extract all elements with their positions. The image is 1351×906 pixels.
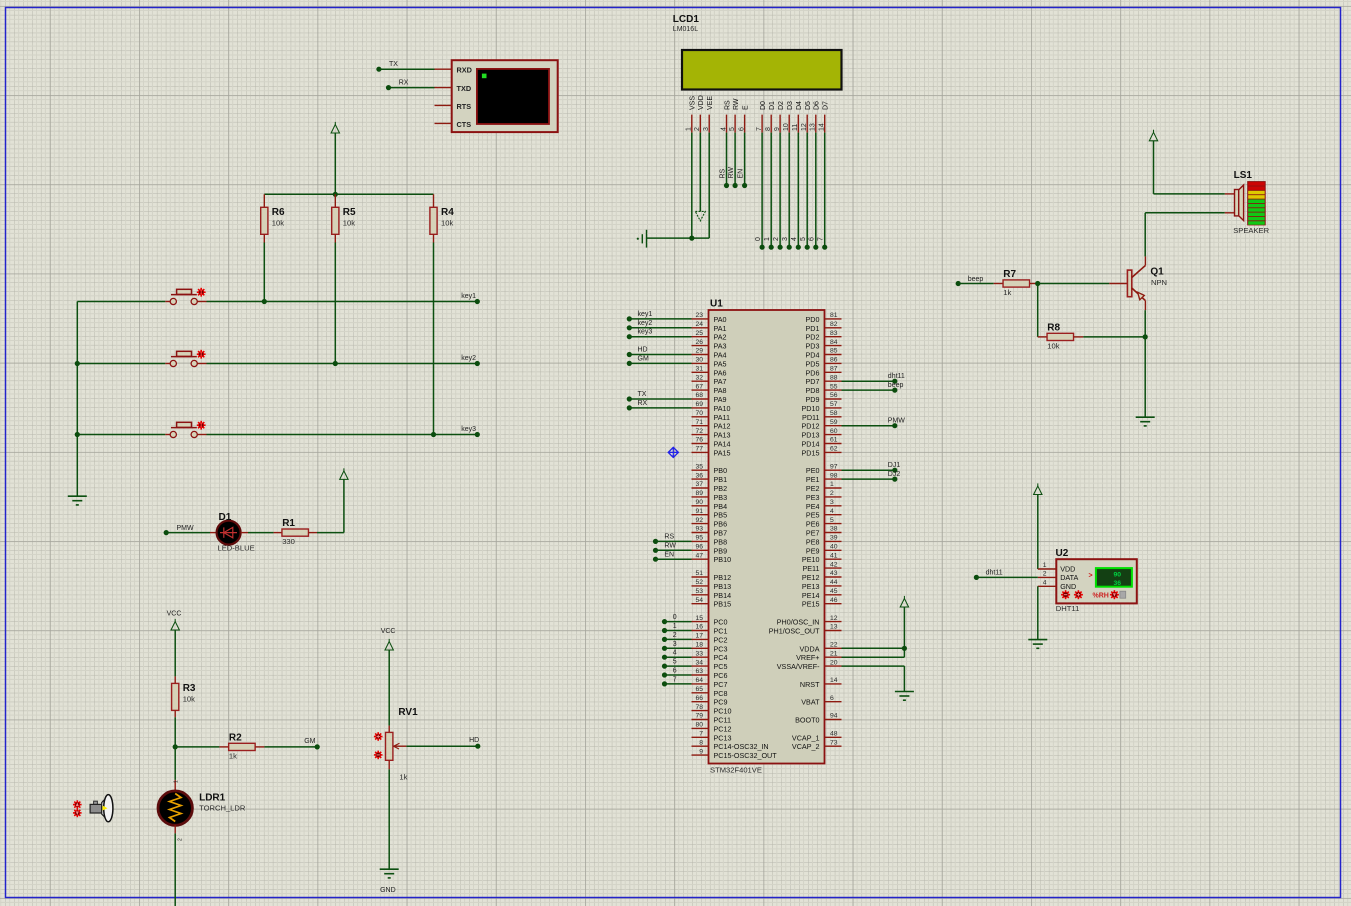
resistor R2 1k [219,732,264,760]
svg-text:PC0: PC0 [714,618,728,627]
svg-text:14: 14 [830,677,838,684]
svg-text:PE9: PE9 [806,546,820,555]
wire key3 to terminal [207,434,478,436]
svg-text:91: 91 [695,508,703,515]
U1 pin PH0/OSC_IN (12) [777,615,842,627]
svg-text:RW: RW [728,167,735,179]
torch actuator up marker [73,800,82,809]
svg-text:NRST: NRST [800,680,820,689]
svg-text:RX: RX [638,400,648,407]
svg-text:PB12: PB12 [714,573,732,582]
U1 pin PB0 (35) [692,463,728,475]
svg-text:PC7: PC7 [714,680,728,689]
svg-text:5: 5 [673,659,677,666]
U1 pin PE12 (43) [802,570,842,582]
svg-text:key2: key2 [461,355,476,362]
svg-text:dht11: dht11 [986,569,1003,576]
svg-text:PE6: PE6 [806,520,820,529]
svg-text:R4: R4 [441,207,454,218]
wire emitter down to ground [1144,310,1146,417]
svg-text:E: E [742,105,749,110]
U1 pin PC5 (34) [692,659,728,671]
svg-text:PB13: PB13 [714,582,732,591]
svg-text:4: 4 [673,650,677,657]
svg-text:33: 33 [695,650,703,657]
svg-text:10k: 10k [183,694,195,703]
svg-text:10k: 10k [1047,341,1059,350]
U1 pin PD15 (62) [802,446,842,458]
svg-text:7: 7 [818,237,825,241]
svg-text:4: 4 [791,237,798,241]
svg-text:71: 71 [695,419,703,426]
svg-text:PB10: PB10 [714,555,732,564]
svg-text:STM32F401VE: STM32F401VE [710,766,762,775]
svg-text:79: 79 [695,713,703,720]
pullup top rail [264,193,433,195]
svg-text:dht11: dht11 [888,373,905,380]
svg-text:beep: beep [888,382,904,389]
wire bus to key2 [77,363,165,365]
svg-text:CTS: CTS [457,120,472,129]
wire R2 to GM terminal [264,746,317,748]
wire TX to VT1 RXD [376,61,434,72]
svg-text:beep: beep [968,276,984,283]
svg-text:97: 97 [830,463,838,470]
terminal node 0 at U1 PC0 [662,614,692,624]
U1 pin PD13 (60) [802,428,842,440]
svg-text:41: 41 [830,552,838,559]
U1 pin VREF+ (21) [796,650,841,662]
svg-text:VCAP_2: VCAP_2 [792,742,820,751]
svg-text:VEE: VEE [707,96,714,110]
svg-text:PC2: PC2 [714,635,728,644]
U1 pin PE7 (38) [806,526,842,538]
wire LCD RS to node RS [719,133,729,188]
svg-text:D1: D1 [769,101,776,110]
terminal node dht11 at U2 [974,569,1038,580]
svg-text:RS: RS [724,100,731,110]
wire LCD D7 to node 7 [818,133,828,250]
svg-text:1: 1 [830,481,834,488]
U1 pin PE4 (3) [806,499,842,511]
svg-text:56: 56 [830,392,838,399]
power arrow above speaker [1149,130,1225,194]
U1 pin PE10 (41) [802,552,842,564]
svg-text:PB4: PB4 [714,502,728,511]
svg-text:40: 40 [830,544,838,551]
svg-text:D0: D0 [760,101,767,110]
svg-text:NPN: NPN [1151,278,1167,287]
wire VDDA [842,647,905,649]
svg-text:94: 94 [830,713,838,720]
wire VSSA/VREF- to ground [842,666,905,691]
svg-text:6: 6 [830,695,834,702]
svg-text:PE2: PE2 [806,484,820,493]
svg-text:24: 24 [695,321,703,328]
wire LCD VEE down and left [647,133,710,239]
svg-text:6: 6 [673,668,677,675]
U1 pin PA4 (29) [692,348,727,360]
svg-text:D2: D2 [778,101,785,110]
svg-text:R5: R5 [343,207,356,218]
junction R5/key row [333,361,338,366]
svg-text:PD5: PD5 [806,359,820,368]
svg-text:PA3: PA3 [714,342,727,351]
U1 pin PB6 (92) [692,517,728,529]
svg-text:VCC: VCC [381,628,396,635]
svg-text:330: 330 [282,537,295,546]
svg-text:D1: D1 [219,512,232,523]
VCC power terminal above R3 [167,610,182,676]
U1 pin PD11 (58) [802,410,841,422]
svg-text:PD8: PD8 [806,386,820,395]
svg-text:3: 3 [830,499,834,506]
svg-text:86: 86 [830,357,838,364]
push button key2 [165,351,206,366]
U1 pin PC14-OSC32_IN (8) [692,739,769,751]
resistor R1 330 [274,518,317,546]
svg-text:PH0/OSC_IN: PH0/OSC_IN [777,618,820,627]
svg-text:PA15: PA15 [714,448,731,457]
svg-text:key3: key3 [638,329,653,336]
U1 pin PA8 (67) [692,383,727,395]
svg-text:PD2: PD2 [806,333,820,342]
wire LDR to sheet bottom [174,833,176,906]
terminal node key1 at U1 [627,311,692,322]
push button key3 [165,422,206,437]
svg-text:D5: D5 [805,101,812,110]
svg-text:PE10: PE10 [802,555,820,564]
U1 pin PD3 (84) [806,339,842,351]
power arrow above R5 [331,122,339,194]
svg-text:76: 76 [695,437,703,444]
svg-text:PC6: PC6 [714,671,728,680]
U1 pin PA0 (23) [692,312,727,324]
junction R4/key row [431,432,436,437]
svg-text:U2: U2 [1056,548,1069,559]
U1 pin PA6 (31) [692,366,727,378]
svg-text:PB5: PB5 [714,511,728,520]
svg-text:77: 77 [695,446,703,453]
U1 pin PA15 (77) [692,446,731,458]
U1 pin PC9 (66) [692,695,728,707]
virtual terminal VT1 body [452,60,558,132]
wire U1 to node beep [842,382,904,393]
svg-text:PB6: PB6 [714,520,728,529]
svg-text:57: 57 [830,401,838,408]
svg-text:HD: HD [469,737,479,744]
svg-text:34: 34 [695,659,703,666]
svg-text:21: 21 [830,650,838,657]
svg-text:15: 15 [695,615,703,622]
svg-text:89: 89 [695,490,703,497]
svg-text:98: 98 [830,472,838,479]
svg-text:52: 52 [695,579,703,586]
power arrow above U2 [1034,483,1042,569]
wire LCD D0 to node 0 [755,133,765,250]
svg-text:1: 1 [764,237,771,241]
U1 pin PC10 (78) [692,704,732,716]
svg-text:1: 1 [673,623,677,630]
svg-text:BOOT0: BOOT0 [795,716,819,725]
U1 pin PC13 (7) [692,731,732,743]
svg-text:LED-BLUE: LED-BLUE [218,544,255,553]
svg-text:RTS: RTS [457,102,472,111]
wire LCD EN to node EN [737,133,747,188]
svg-text:35: 35 [695,463,703,470]
wire D1 to R1 [248,532,274,534]
ground below VSSA [895,691,914,693]
svg-text:D3: D3 [787,101,794,110]
svg-text:PB0: PB0 [714,466,728,475]
wire RX to VT1 TXD [386,79,435,90]
wire R8 to emitter [1083,336,1145,338]
svg-text:R7: R7 [1003,269,1016,280]
U1 pin PE9 (40) [806,544,842,556]
svg-text:5: 5 [800,237,807,241]
U1 pin PA14 (76) [692,437,731,449]
terminal node RX at U1 [627,400,692,411]
svg-text:PA10: PA10 [714,404,731,413]
junction bus/key2 [75,361,80,366]
U1 pin PA10 (69) [692,401,731,413]
power arrow for VDDA [900,596,908,657]
svg-text:PE14: PE14 [802,591,820,600]
speaker LS1 level bars [1247,181,1266,225]
svg-text:22: 22 [830,642,838,649]
wire LCD RW to node RW [728,133,738,188]
wire LCD D4 to node 4 [791,133,801,250]
key3 actuator marker [197,421,206,430]
U1 pin PA12 (71) [692,419,731,431]
terminal node beep (Q1 drive) [956,276,984,286]
svg-text:VBAT: VBAT [801,698,820,707]
svg-text:PMW: PMW [888,418,906,425]
svg-text:TX: TX [389,61,398,68]
U1 pin PA11 (70) [692,410,731,422]
svg-text:31: 31 [695,366,703,373]
U1 pin PB7 (93) [692,526,728,538]
LCD1 pin 7 D0 [756,101,767,133]
svg-text:45: 45 [830,588,838,595]
svg-text:64: 64 [695,677,703,684]
svg-text:25: 25 [695,330,703,337]
svg-text:PE5: PE5 [806,511,820,520]
svg-text:PD12: PD12 [802,422,820,431]
U1 pin PC11 (79) [692,713,731,725]
wire R4 to key row [433,243,435,435]
svg-text:1k: 1k [229,751,237,760]
svg-text:PC15-OSC32_OUT: PC15-OSC32_OUT [714,751,778,760]
svg-text:42: 42 [830,561,838,568]
torch actuator down marker [73,809,82,818]
svg-text:PE1: PE1 [806,475,820,484]
U1 pin PD4 (85) [806,348,842,360]
terminal node key1 [461,293,480,304]
wire R5 to key row [334,243,336,364]
left button bus wire [76,302,78,497]
ground terminal (left of LCD) [637,230,647,248]
U1 pin PD5 (86) [806,357,842,369]
svg-text:PE15: PE15 [802,600,820,609]
wire U1 to node PMW [842,418,906,429]
svg-text:70: 70 [695,410,703,417]
origin marker (blue diamond) [668,447,678,457]
U2 actuator markers [1061,590,1126,599]
wire LCD D6 to node 6 [809,133,819,250]
junction R6/key row [262,299,267,304]
wire RV1 wiper to HD terminal [406,745,477,747]
svg-text:26: 26 [695,339,703,346]
wire RV1 to GND [388,769,390,869]
svg-text:38: 38 [830,526,838,533]
U1 pin VBAT (6) [801,695,841,707]
terminal node key3 [461,426,480,437]
svg-text:PA0: PA0 [714,315,727,324]
U1 pin NRST (14) [800,677,842,689]
svg-text:78: 78 [695,704,703,711]
key2 actuator marker [197,350,206,359]
U1 pin PC0 (15) [692,615,728,627]
svg-text:PE13: PE13 [802,582,820,591]
U1 pin PB12 (51) [692,570,732,582]
RV1 actuator markers [374,732,383,759]
U1 pin PD2 (83) [806,330,842,342]
svg-text:59: 59 [830,419,838,426]
svg-text:PA1: PA1 [714,324,727,333]
resistor R4 10k [430,194,454,242]
wire LCD D2 to node 2 [773,133,783,250]
svg-text:PD11: PD11 [802,413,819,422]
wire PMW to D1 [166,532,210,534]
svg-text:PB2: PB2 [714,484,728,493]
U1 pin PD6 (87) [806,366,842,378]
LCD1 pin 5 RW [729,98,740,133]
U1 pin PC12 (80) [692,722,732,734]
U1 pin PH1/OSC_OUT (13) [769,624,842,636]
terminal node GM at U1 [627,355,692,366]
svg-text:R2: R2 [229,732,242,743]
wire VREF+ [842,656,905,658]
LCD1 pin 4 RS [720,100,731,133]
svg-text:VSS: VSS [690,96,697,110]
svg-text:20: 20 [830,659,838,666]
junction VSS/ground rail [689,236,694,241]
svg-text:DJ1: DJ1 [888,462,901,469]
svg-text:30: 30 [695,357,703,364]
svg-text:87: 87 [830,366,838,373]
resistor R7 1k [994,269,1038,297]
junction R3/R2/LDR [173,744,178,749]
svg-text:TORCH_LDR: TORCH_LDR [199,803,246,812]
wire R3 to LDR [174,717,176,747]
svg-text:PE3: PE3 [806,493,820,502]
svg-text:>: > [1089,572,1093,579]
svg-text:85: 85 [830,348,838,355]
svg-text:PA5: PA5 [714,359,727,368]
svg-text:LM016L: LM016L [673,26,698,33]
key1 actuator marker [197,288,206,297]
svg-text:90: 90 [1113,571,1121,578]
svg-text:82: 82 [830,321,838,328]
svg-text:PD3: PD3 [806,342,820,351]
push button key1 [165,289,206,304]
svg-text:key2: key2 [638,320,653,327]
LCD1 screen [682,50,842,90]
svg-text:67: 67 [695,383,703,390]
svg-text:R1: R1 [282,518,295,529]
svg-text:2: 2 [673,632,677,639]
svg-text:PB15: PB15 [714,600,732,609]
U1 pin PC8 (65) [692,686,728,698]
torch actuator icon [90,795,113,822]
U1 pin PE2 (1) [806,481,842,493]
svg-text:PE7: PE7 [806,529,820,538]
svg-text:90: 90 [695,499,703,506]
U1 pin PE11 (42) [802,561,841,573]
U2 display [1089,568,1132,587]
wire R1 to power [317,479,344,532]
U1 pin VDDA (22) [800,642,842,654]
LCD1 pin 3 VEE [703,96,714,133]
U1 pin VCAP_1 (48) [792,731,842,743]
resistor R3 10k [172,676,196,717]
svg-text:PE4: PE4 [806,502,820,511]
U1 pin PB8 (95) [692,535,728,547]
U1 pin PE6 (5) [806,517,842,529]
terminal node PMW (LED) [164,525,194,535]
terminal node RW at U1 [653,543,692,553]
wire bus to key1 [77,301,165,303]
svg-text:RV1: RV1 [398,707,418,718]
U1 pin PB4 (90) [692,499,728,511]
svg-text:1: 1 [174,780,180,783]
svg-text:3: 3 [673,641,677,648]
wire key1 to terminal [207,301,478,303]
wire R7 junction to Q1 base [1038,283,1110,285]
svg-text:PB3: PB3 [714,493,728,502]
svg-text:PE0: PE0 [806,466,820,475]
svg-text:R8: R8 [1047,322,1060,333]
wire LCD VSS to ground rail [691,133,693,239]
U1 pin PB13 (52) [692,579,732,591]
svg-text:68: 68 [695,392,703,399]
VT1 pin stubs [435,69,452,123]
svg-text:VSSA/VREF-: VSSA/VREF- [777,662,820,671]
U1 pin PB9 (96) [692,544,728,556]
svg-text:80: 80 [695,722,703,729]
svg-text:LS1: LS1 [1234,170,1253,181]
svg-text:1k: 1k [1003,288,1011,297]
LCD1 pin 14 D7 [819,101,830,133]
svg-text:84: 84 [830,339,838,346]
svg-text:LDR1: LDR1 [199,792,226,803]
terminal node 1 at U1 PC1 [662,623,692,633]
svg-text:95: 95 [695,535,703,542]
wire LCD D5 to node 5 [800,133,810,250]
svg-text:PC11: PC11 [714,716,731,725]
wire collector to speaker [1144,213,1146,257]
svg-text:10k: 10k [343,218,355,227]
U1 pin PC6 (63) [692,668,728,680]
svg-text:key3: key3 [461,426,476,433]
U1 pin PB14 (53) [692,588,732,600]
svg-text:17: 17 [695,633,703,640]
svg-text:LCD1: LCD1 [673,14,700,25]
wire LCD D1 to node 1 [764,133,774,250]
svg-text:2: 2 [1043,570,1047,577]
svg-text:Q1: Q1 [1150,267,1164,278]
